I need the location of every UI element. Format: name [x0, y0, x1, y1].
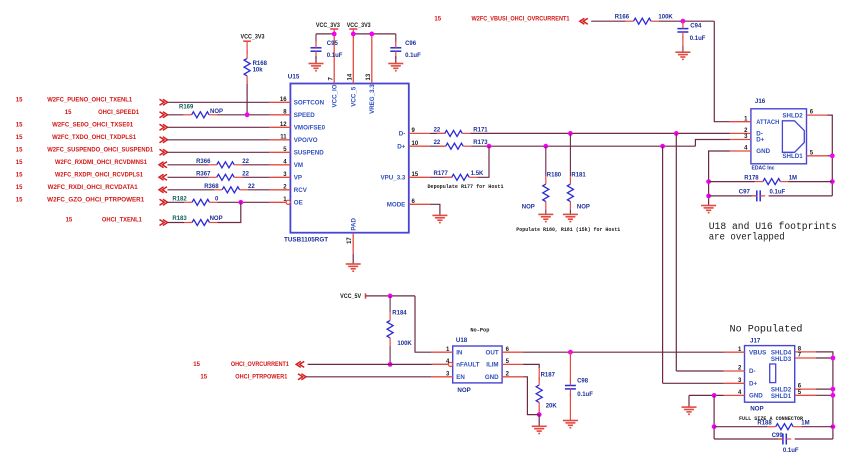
svg-text:15: 15	[16, 160, 23, 166]
wire	[168, 139, 270, 141]
junction	[831, 424, 836, 429]
svg-text:OHCI_TXENL1: OHCI_TXENL1	[102, 218, 143, 224]
svg-text:SOFTCON: SOFTCON	[294, 100, 325, 107]
svg-text:16: 16	[280, 97, 287, 103]
svg-text:NOP: NOP	[750, 406, 763, 413]
svg-text:VCC_3V3: VCC_3V3	[241, 35, 266, 41]
wire	[168, 151, 270, 153]
wire	[415, 296, 432, 352]
svg-text:NOP: NOP	[457, 387, 470, 394]
capacitor C96 0.1uF	[390, 34, 421, 59]
wire	[470, 132, 730, 134]
junction	[660, 144, 665, 149]
svg-text:C98: C98	[577, 379, 589, 385]
wire	[218, 202, 241, 222]
resistor R168 10k	[244, 50, 268, 84]
wire	[714, 438, 783, 440]
junction	[712, 424, 717, 429]
svg-text:C97: C97	[739, 190, 751, 196]
wire	[828, 115, 833, 196]
svg-text:15: 15	[65, 110, 72, 116]
svg-text:OHCI_OVRCURRENT1: OHCI_OVRCURRENT1	[231, 362, 290, 368]
svg-text:0.1uF: 0.1uF	[405, 53, 421, 59]
svg-text:0.1uF: 0.1uF	[690, 36, 706, 42]
ground	[675, 51, 690, 53]
junction	[706, 179, 711, 184]
svg-text:D+: D+	[749, 381, 757, 388]
svg-text:D-: D-	[749, 368, 756, 375]
capacitor C99 0.1uF	[772, 433, 799, 454]
wire	[168, 222, 185, 224]
capacitor C95 0.1uF	[311, 34, 343, 59]
svg-text:VCC_IO: VCC_IO	[332, 84, 339, 107]
svg-text:15: 15	[16, 198, 23, 204]
wire	[795, 438, 833, 440]
svg-text:W2FC_GZO_OHCI_PTRPOWER1: W2FC_GZO_OHCI_PTRPOWER1	[47, 198, 145, 204]
resistor R166 100K	[615, 14, 674, 24]
resistor R184 100K	[387, 296, 412, 365]
svg-text:R188: R188	[757, 421, 772, 427]
svg-text:15: 15	[412, 172, 419, 178]
svg-text:GND: GND	[756, 148, 770, 155]
op-amp U18 power switch	[432, 327, 523, 394]
svg-text:0.1uF: 0.1uF	[577, 392, 593, 398]
ground	[682, 406, 697, 408]
resistor R182 0	[172, 197, 219, 206]
wire	[713, 395, 715, 439]
wire	[659, 20, 714, 22]
ground	[388, 63, 403, 65]
svg-text:OE: OE	[294, 200, 303, 207]
svg-text:J17: J17	[750, 337, 761, 344]
svg-text:SHLD1: SHLD1	[771, 393, 792, 400]
resistor R367 22	[196, 172, 250, 181]
junction	[388, 362, 393, 367]
svg-text:0.1uF: 0.1uF	[327, 53, 343, 59]
junction	[568, 350, 573, 355]
svg-text:R367: R367	[196, 172, 211, 178]
svg-text:12: 12	[280, 122, 287, 128]
capacitor C94 0.1uF	[677, 21, 705, 52]
svg-text:W2FC_PUENO_OHCI_TXENL1: W2FC_PUENO_OHCI_TXENL1	[47, 98, 133, 104]
wire	[538, 415, 540, 427]
power VCC_3V3	[241, 35, 266, 54]
svg-text:W2FC_SUSPENDO_OHCI_SUSPEND1: W2FC_SUSPENDO_OHCI_SUSPEND1	[47, 148, 154, 154]
svg-text:R368: R368	[204, 184, 219, 190]
power VCC_3V3	[347, 23, 372, 34]
wire	[246, 80, 248, 84]
wire	[430, 145, 446, 147]
svg-text:NOP: NOP	[577, 204, 590, 210]
wire	[714, 21, 730, 122]
svg-text:0.1uF: 0.1uF	[770, 190, 786, 196]
wire	[308, 363, 449, 365]
svg-text:OUT: OUT	[486, 349, 499, 356]
svg-text:TUSB1105RGT: TUSB1105RGT	[284, 237, 328, 244]
wire	[709, 181, 755, 183]
svg-text:15: 15	[434, 16, 441, 22]
svg-text:VCC_3V3: VCC_3V3	[347, 23, 372, 29]
svg-text:GND: GND	[485, 374, 499, 381]
wire	[816, 352, 833, 439]
svg-text:RCV: RCV	[294, 187, 308, 194]
svg-text:R169: R169	[179, 105, 194, 111]
svg-text:15: 15	[193, 362, 200, 368]
wire	[788, 181, 832, 183]
svg-text:10: 10	[412, 141, 419, 147]
capacitor C98 0.1uF	[565, 352, 593, 420]
svg-text:W2FC_VBUSI_OHCI_OVRCURRENT1: W2FC_VBUSI_OHCI_OVRCURRENT1	[472, 16, 571, 22]
resistor R178 1M	[744, 175, 797, 184]
svg-text:R182: R182	[172, 197, 187, 203]
svg-text:100K: 100K	[658, 14, 673, 20]
svg-text:SHLD2: SHLD2	[782, 113, 803, 120]
svg-text:R187: R187	[541, 372, 556, 378]
svg-text:VMO/FSE0: VMO/FSE0	[294, 125, 326, 132]
wire	[430, 176, 452, 178]
svg-text:GND: GND	[749, 393, 763, 400]
svg-text:C96: C96	[405, 41, 417, 47]
wire	[663, 382, 724, 384]
resistor R181 NOP	[567, 133, 590, 214]
svg-text:1.5K: 1.5K	[471, 171, 484, 177]
wire	[709, 151, 730, 206]
svg-text:D+: D+	[756, 137, 764, 144]
svg-text:W2FC_RXDPI_OHCI_RCVDPLS1: W2FC_RXDPI_OHCI_RCVDPLS1	[55, 173, 144, 179]
junction	[674, 131, 679, 136]
svg-text:Depopulate R177 for Host1: Depopulate R177 for Host1	[428, 184, 504, 190]
junction	[369, 32, 374, 37]
svg-text:SHLD3: SHLD3	[771, 356, 792, 363]
svg-text:13: 13	[366, 73, 372, 80]
svg-text:W2FC_RXDI_OHCI_RCVDATA1: W2FC_RXDI_OHCI_RCVDATA1	[48, 185, 139, 191]
svg-text:U15: U15	[288, 73, 300, 80]
wire	[168, 101, 270, 103]
resistor R173 22	[434, 140, 489, 149]
svg-text:NOP: NOP	[522, 204, 535, 210]
wire	[306, 376, 432, 378]
svg-text:C95: C95	[327, 41, 339, 47]
svg-text:U18: U18	[456, 337, 468, 344]
svg-text:J16: J16	[755, 98, 766, 105]
capacitor C97 0.1uF	[739, 190, 786, 202]
ground	[538, 213, 553, 215]
svg-text:22: 22	[242, 172, 249, 178]
svg-text:SPEED: SPEED	[294, 112, 316, 119]
junction	[831, 393, 836, 398]
resistor R169 NOP	[179, 105, 223, 118]
svg-text:R184: R184	[392, 310, 407, 316]
svg-text:R173: R173	[473, 140, 488, 146]
wire	[689, 394, 724, 396]
resistor R368 22	[204, 184, 255, 193]
wire	[477, 146, 489, 177]
svg-text:22: 22	[434, 127, 441, 133]
svg-text:Populate R180, R181 (15k) for: Populate R180, R181 (15k) for Host1	[516, 227, 620, 233]
wire	[676, 370, 723, 372]
junction	[712, 393, 717, 398]
svg-text:17: 17	[347, 237, 353, 244]
power VCC_3V3	[316, 23, 341, 34]
wire	[316, 33, 334, 35]
wire	[523, 351, 723, 353]
svg-text:14: 14	[348, 73, 354, 80]
wire	[695, 140, 730, 147]
wire	[688, 395, 690, 407]
svg-text:are overlapped: are overlapped	[709, 231, 785, 242]
ground	[309, 63, 324, 65]
resistor R366 22	[196, 159, 250, 168]
svg-text:D-: D-	[399, 131, 406, 138]
wire	[471, 145, 695, 147]
svg-text:R166: R166	[615, 14, 630, 20]
junction	[543, 144, 548, 149]
svg-text:SUSPEND: SUSPEND	[294, 150, 324, 157]
svg-text:15: 15	[200, 375, 207, 381]
connector J17 FULL SIZE A CONNECTOR	[724, 337, 816, 422]
svg-text:R178: R178	[744, 175, 759, 181]
svg-text:VCC_5V: VCC_5V	[340, 294, 361, 300]
svg-text:R180: R180	[547, 172, 562, 178]
junction	[830, 179, 835, 184]
junction	[245, 112, 250, 117]
svg-text:EDAC Inc: EDAC Inc	[752, 166, 776, 172]
svg-text:1M: 1M	[789, 175, 797, 181]
svg-text:U18 and U16 footprints: U18 and U16 footprints	[709, 221, 837, 232]
svg-text:0.1uF: 0.1uF	[783, 448, 799, 454]
svg-text:VPU_3.3: VPU_3.3	[381, 175, 406, 182]
junction	[388, 294, 393, 299]
svg-text:VPO/VO: VPO/VO	[294, 137, 318, 144]
svg-text:EN: EN	[456, 374, 465, 381]
power VCC_5V	[340, 293, 365, 300]
wire	[366, 295, 416, 297]
svg-text:22: 22	[434, 140, 441, 146]
svg-text:No Populated: No Populated	[730, 324, 803, 336]
wire	[675, 133, 677, 371]
resistor R171 22	[434, 127, 489, 136]
wire	[662, 146, 664, 383]
wire	[168, 201, 185, 203]
ground	[701, 205, 716, 207]
wire	[816, 357, 833, 359]
svg-text:C99: C99	[772, 433, 784, 439]
svg-text:R183: R183	[172, 216, 187, 222]
op-amp U15 TUSB1105RGT	[269, 34, 429, 254]
svg-text:15: 15	[16, 98, 23, 104]
wire	[430, 132, 445, 134]
svg-text:20K: 20K	[546, 404, 558, 410]
wire	[168, 114, 184, 116]
junction	[706, 194, 711, 199]
junction	[238, 200, 243, 205]
connector J16 EDAC Inc	[730, 98, 828, 171]
resistor R188 1M	[757, 421, 809, 430]
svg-text:No-Pop: No-Pop	[470, 327, 489, 333]
wire	[168, 126, 270, 128]
junction	[568, 131, 573, 136]
svg-text:R181: R181	[571, 172, 586, 178]
resistor R183 NOP	[172, 216, 222, 226]
junction	[351, 32, 356, 37]
svg-text:15: 15	[16, 135, 23, 141]
svg-text:VM: VM	[294, 162, 303, 169]
svg-text:100K: 100K	[397, 341, 412, 347]
svg-text:OHCI_PTRPOWER1: OHCI_PTRPOWER1	[235, 375, 288, 381]
svg-text:15: 15	[16, 148, 23, 154]
ground	[532, 425, 547, 427]
wire	[352, 254, 354, 264]
svg-text:R168: R168	[253, 61, 268, 67]
svg-text:R171: R171	[473, 127, 488, 133]
wire	[591, 20, 625, 22]
wire	[430, 204, 440, 215]
junction	[537, 412, 542, 417]
svg-text:VP: VP	[294, 175, 302, 182]
ground	[346, 263, 361, 265]
wire	[816, 388, 833, 390]
svg-text:10k: 10k	[253, 67, 264, 73]
svg-text:W2FC_RXDMI_OHCI_RCVDMNS1: W2FC_RXDMI_OHCI_RCVDMNS1	[55, 160, 148, 166]
svg-text:W2FC_TXDO_OHCI_TXDPLS1: W2FC_TXDO_OHCI_TXDPLS1	[52, 135, 137, 141]
wire	[168, 164, 209, 166]
svg-text:VREG_3.3: VREG_3.3	[369, 84, 376, 114]
svg-text:11: 11	[280, 135, 287, 141]
svg-text:IN: IN	[456, 349, 463, 356]
junction	[831, 387, 836, 392]
wire	[168, 176, 209, 178]
wire	[816, 394, 833, 396]
junction	[681, 19, 686, 24]
svg-text:1M: 1M	[801, 421, 809, 427]
svg-text:15: 15	[66, 218, 73, 224]
junction	[332, 32, 337, 37]
ground	[563, 213, 578, 215]
svg-text:VBUS: VBUS	[749, 349, 766, 356]
resistor R177 1.5K	[434, 171, 485, 180]
junction	[487, 144, 492, 149]
svg-text:R177: R177	[434, 171, 449, 177]
svg-text:ATTACH: ATTACH	[756, 119, 779, 126]
wire	[353, 33, 396, 35]
svg-text:C94: C94	[690, 24, 702, 30]
junction	[831, 356, 836, 361]
svg-text:VCC_5: VCC_5	[351, 86, 358, 107]
svg-text:NOP: NOP	[210, 109, 223, 115]
wire	[315, 56, 317, 63]
svg-text:nFAULT: nFAULT	[456, 362, 479, 369]
svg-text:PAD: PAD	[351, 217, 358, 230]
wire	[395, 56, 397, 63]
svg-text:MODE: MODE	[387, 202, 406, 209]
svg-text:W2FC_SE0O_OHCI_TXSE01: W2FC_SE0O_OHCI_TXSE01	[52, 123, 134, 129]
svg-text:D+: D+	[397, 143, 405, 150]
junction	[830, 153, 835, 158]
resistor R180 NOP	[522, 146, 562, 214]
svg-text:SHLD1: SHLD1	[782, 153, 803, 160]
ground	[432, 214, 447, 216]
wire	[523, 364, 539, 368]
wire	[801, 426, 833, 428]
wire	[828, 155, 833, 157]
wire	[523, 377, 539, 415]
svg-text:15: 15	[16, 173, 23, 179]
wire	[714, 426, 768, 428]
svg-text:ILIM: ILIM	[486, 362, 498, 369]
wire	[168, 189, 215, 191]
svg-text:22: 22	[242, 159, 249, 165]
svg-text:NOP: NOP	[210, 216, 223, 222]
svg-text:15: 15	[16, 123, 23, 129]
resistor R187 20K	[536, 372, 557, 414]
wire	[769, 195, 833, 197]
ground	[563, 420, 578, 422]
svg-text:15: 15	[16, 185, 23, 191]
wire	[709, 195, 757, 197]
svg-text:OHCI_SPEED1: OHCI_SPEED1	[98, 110, 140, 116]
svg-text:VCC_3V3: VCC_3V3	[316, 23, 341, 29]
svg-text:22: 22	[248, 184, 255, 190]
svg-text:R366: R366	[196, 159, 211, 165]
